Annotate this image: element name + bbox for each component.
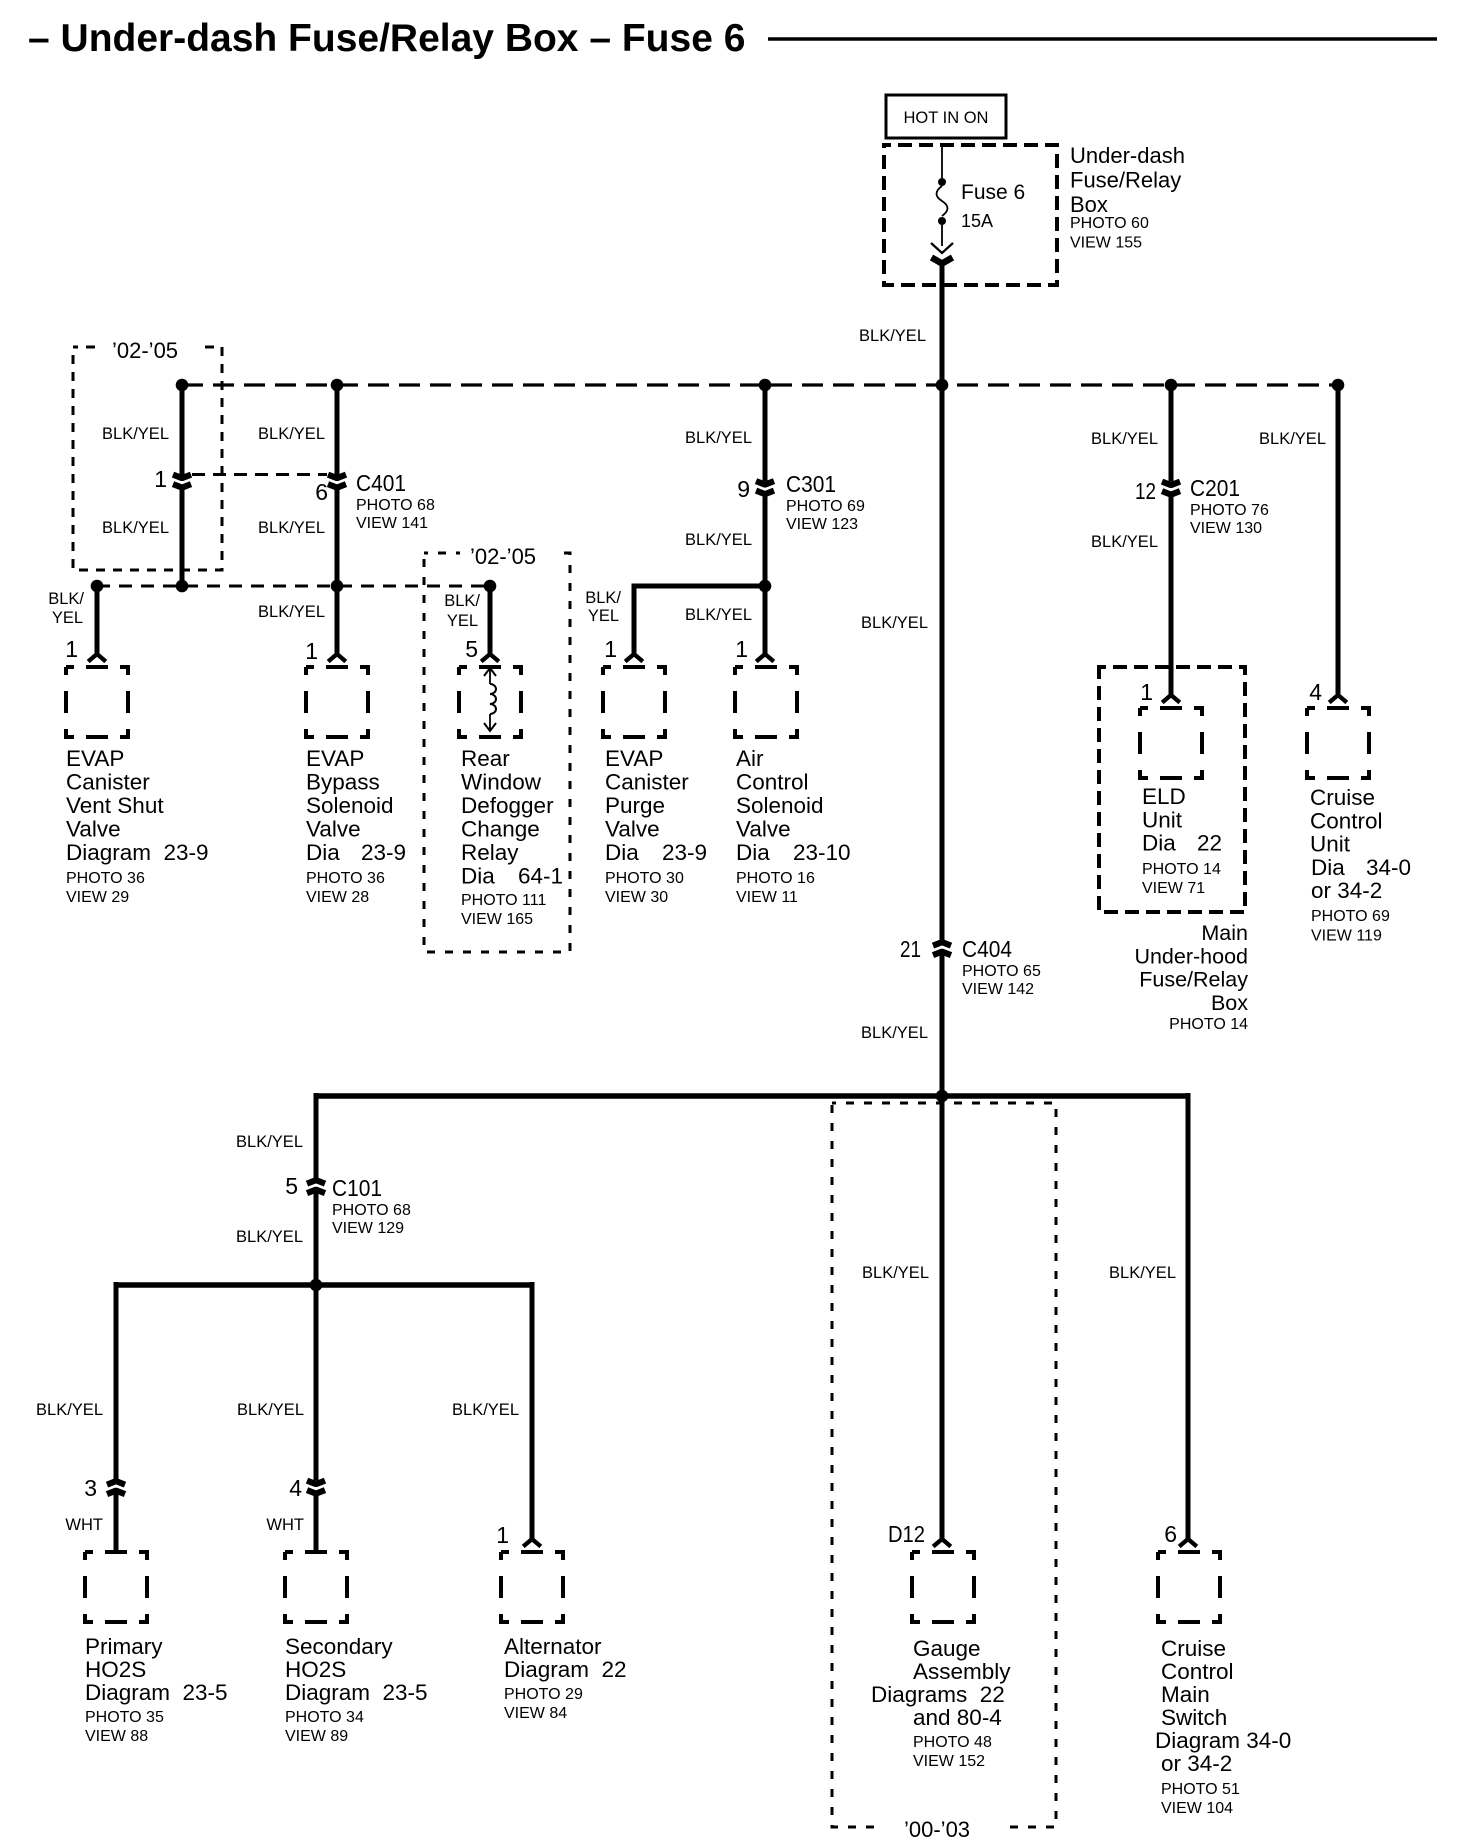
svg-text:Switch: Switch	[1161, 1705, 1227, 1730]
svg-text:1: 1	[305, 638, 318, 664]
connector secondary HO2S (inline)	[307, 1481, 325, 1485]
svg-text:Gauge: Gauge	[913, 1636, 981, 1661]
svg-text:Fuse 6: Fuse 6	[961, 181, 1025, 204]
svg-text:Air: Air	[736, 746, 764, 771]
wire horizontal distribution 2	[116, 1282, 533, 1288]
terminal into cruise control unit	[1329, 695, 1347, 703]
wire to primary HO2S	[114, 1282, 119, 1480]
wire elbow to purge valve	[634, 584, 765, 589]
svg-text:VIEW 165: VIEW 165	[461, 911, 533, 928]
svg-text:PHOTO 36: PHOTO 36	[66, 870, 145, 887]
svg-text:VIEW 89: VIEW 89	[285, 1728, 348, 1745]
svg-text:9: 9	[737, 476, 750, 502]
svg-text:Alternator: Alternator	[504, 1634, 602, 1659]
svg-text:VIEW 11: VIEW 11	[736, 889, 798, 906]
terminal into defogger relay	[481, 654, 499, 662]
svg-text:BLK/: BLK/	[48, 590, 84, 608]
svg-text:1: 1	[154, 466, 167, 492]
svg-text:Unit: Unit	[1310, 832, 1351, 857]
wire horizontal distribution	[315, 1093, 1189, 1099]
wire C404 to main junction	[940, 953, 945, 1096]
svg-text:BLK/YEL: BLK/YEL	[1109, 1264, 1176, 1282]
svg-text:23-10: 23-10	[793, 840, 851, 865]
component box EVAP Canister Purge Valve	[603, 667, 665, 737]
svg-text:23-9: 23-9	[361, 840, 406, 865]
fuse output thin arrow	[931, 243, 953, 253]
wire to secondary HO2S	[314, 1285, 319, 1481]
connector C201 (inline)	[1162, 482, 1180, 486]
svg-text:D12: D12	[888, 1521, 925, 1547]
svg-text:Vent Shut: Vent Shut	[66, 793, 164, 818]
svg-text:Diagram 23-9: Diagram 23-9	[66, 840, 209, 865]
svg-text:Valve: Valve	[736, 817, 791, 842]
fuse node dot lower	[938, 217, 946, 225]
svg-text:BLK/YEL: BLK/YEL	[861, 1024, 928, 1042]
svg-text:BLK/YEL: BLK/YEL	[237, 1401, 304, 1419]
svg-text:PHOTO 30: PHOTO 30	[605, 870, 684, 887]
svg-text:BLK/YEL: BLK/YEL	[36, 1401, 103, 1419]
wire WHT to primary HO2S	[114, 1492, 119, 1552]
svg-text:Dia: Dia	[1311, 855, 1345, 880]
svg-text:VIEW 104: VIEW 104	[1161, 1800, 1233, 1817]
power source box HOT IN ON	[886, 95, 1006, 138]
svg-text:Dia: Dia	[461, 864, 495, 889]
svg-text:PHOTO 35: PHOTO 35	[85, 1709, 164, 1726]
svg-text:BLK/YEL: BLK/YEL	[258, 603, 325, 621]
fuse lead lower	[941, 225, 943, 246]
wire bus2 to EVAP vent shut valve	[95, 586, 100, 656]
svg-text:PHOTO 51: PHOTO 51	[1161, 1781, 1240, 1798]
svg-text:YEL: YEL	[52, 609, 83, 627]
junction dot B2	[331, 580, 344, 593]
dashed group box '02-'05 defogger	[424, 553, 570, 952]
svg-text:PHOTO 76: PHOTO 76	[1190, 502, 1269, 519]
under-dash fuse/relay box (dashed)	[884, 145, 1057, 285]
junction dot defogger	[484, 580, 497, 593]
svg-text:Unit: Unit	[1142, 807, 1183, 832]
connector link dashed line C401	[192, 473, 327, 476]
dashed group box '02-'05 left	[73, 347, 222, 570]
svg-text:C201: C201	[1190, 475, 1240, 501]
svg-text:3: 3	[84, 1475, 97, 1501]
svg-text:VIEW 84: VIEW 84	[504, 1705, 567, 1722]
svg-text:64-1: 64-1	[518, 864, 563, 889]
svg-text:BLK/YEL: BLK/YEL	[862, 1264, 929, 1282]
junction dot A2	[176, 580, 189, 593]
component box Cruise Control Unit	[1307, 708, 1369, 778]
svg-text:Dia: Dia	[306, 840, 340, 865]
svg-text:5: 5	[285, 1173, 298, 1199]
fuse node dot upper	[938, 178, 946, 186]
svg-text:Solenoid: Solenoid	[306, 793, 394, 818]
connector C301 (inline)	[756, 481, 774, 485]
svg-text:VIEW 141: VIEW 141	[356, 515, 428, 532]
component box Cruise Control Main Switch	[1158, 1552, 1220, 1622]
connector C401 pin1 (inline)	[173, 475, 191, 479]
wire to air control valve	[763, 586, 768, 656]
svg-text:C401: C401	[356, 470, 406, 496]
component box ELD Unit	[1140, 708, 1202, 778]
svg-text:Solenoid: Solenoid	[736, 793, 824, 818]
junction dot purge branch	[759, 580, 772, 593]
wire to alternator	[530, 1282, 535, 1541]
svg-text:Valve: Valve	[66, 817, 121, 842]
component box Secondary HO2S	[285, 1552, 347, 1622]
junction dot main	[936, 379, 949, 392]
svg-text:Secondary: Secondary	[285, 1634, 393, 1659]
svg-text:PHOTO 68: PHOTO 68	[332, 1202, 411, 1219]
svg-text:Bypass: Bypass	[306, 770, 380, 795]
svg-text:Control: Control	[736, 770, 809, 795]
svg-text:Diagram 34-0: Diagram 34-0	[1155, 1728, 1291, 1753]
wire C301 to junction	[763, 494, 768, 586]
svg-text:Primary: Primary	[85, 1634, 163, 1659]
component box Primary HO2S	[85, 1552, 147, 1622]
svg-text:PHOTO 68: PHOTO 68	[356, 497, 435, 514]
terminal into air control valve	[756, 654, 774, 662]
svg-text:PHOTO 69: PHOTO 69	[1311, 908, 1390, 925]
svg-text:’02-’05: ’02-’05	[470, 544, 536, 569]
svg-text:and 80-4: and 80-4	[913, 1705, 1002, 1730]
wire BLK/YEL bus to C201	[1169, 385, 1174, 482]
svg-text:BLK/YEL: BLK/YEL	[685, 429, 752, 447]
wire BLK/YEL bus to cruise control unit	[1336, 385, 1341, 697]
svg-text:1: 1	[1140, 679, 1153, 705]
terminal into EVAP purge valve	[625, 654, 643, 662]
svg-text:Valve: Valve	[306, 817, 361, 842]
component box Air Control Solenoid Valve	[735, 667, 797, 737]
svg-text:VIEW 88: VIEW 88	[85, 1728, 148, 1745]
svg-text:or 34-2: or 34-2	[1311, 878, 1382, 903]
svg-text:Under-dash: Under-dash	[1070, 143, 1185, 168]
svg-text:Cruise: Cruise	[1310, 785, 1375, 810]
svg-text:HO2S: HO2S	[85, 1657, 146, 1682]
svg-text:HOT IN ON: HOT IN ON	[904, 109, 989, 127]
svg-text:Dia: Dia	[1142, 831, 1176, 856]
junction dot vent-shut	[91, 580, 104, 593]
junction dot B	[331, 379, 344, 392]
svg-text:Under-hood: Under-hood	[1134, 944, 1248, 968]
svg-text:1: 1	[65, 636, 78, 662]
svg-text:Canister: Canister	[66, 770, 150, 795]
svg-text:BLK/YEL: BLK/YEL	[452, 1401, 519, 1419]
svg-text:– Under-dash Fuse/Relay Box –: – Under-dash Fuse/Relay Box – Fuse 6	[28, 17, 745, 60]
svg-text:BLK/YEL: BLK/YEL	[1091, 533, 1158, 551]
svg-text:VIEW 30: VIEW 30	[605, 889, 668, 906]
wire to gauge assembly	[940, 1093, 945, 1541]
component box Rear Window Defogger Change Relay	[459, 667, 521, 737]
junction dot A	[176, 379, 189, 392]
terminal into gauge assembly	[933, 1539, 951, 1547]
svg-text:Relay: Relay	[461, 840, 519, 865]
svg-text:PHOTO 29: PHOTO 29	[504, 1686, 583, 1703]
svg-text:VIEW 155: VIEW 155	[1070, 235, 1142, 252]
svg-text:VIEW 152: VIEW 152	[913, 1753, 985, 1770]
svg-text:PHOTO 16: PHOTO 16	[736, 870, 815, 887]
svg-text:BLK/YEL: BLK/YEL	[102, 425, 169, 443]
svg-text:Dia: Dia	[736, 840, 770, 865]
svg-text:21: 21	[900, 936, 921, 962]
wire BLK/YEL bus to C404	[940, 385, 945, 943]
terminal into EVAP vent shut valve	[88, 654, 106, 662]
svg-text:Dia: Dia	[605, 840, 639, 865]
svg-text:BLK/YEL: BLK/YEL	[236, 1228, 303, 1246]
main under-hood fuse/relay box (dashed)	[1099, 667, 1245, 912]
svg-text:BLK/YEL: BLK/YEL	[1091, 430, 1158, 448]
wire BLK/YEL bus to C401 pin6	[335, 385, 340, 475]
svg-text:or 34-2: or 34-2	[1161, 1751, 1232, 1776]
svg-text:VIEW 123: VIEW 123	[786, 516, 858, 533]
component box EVAP Bypass Solenoid Valve	[306, 667, 368, 737]
junction dot C201 branch	[1165, 379, 1178, 392]
svg-text:15A: 15A	[961, 211, 993, 231]
bus wire 2 (dashed) y=586	[97, 585, 490, 588]
wire BLK/YEL bus2 to EVAP bypass valve	[335, 586, 340, 656]
wire C401 pin1 to bus2	[180, 488, 185, 587]
svg-text:Main: Main	[1201, 921, 1248, 945]
svg-text:EVAP: EVAP	[306, 746, 364, 771]
terminal into alternator	[523, 1539, 541, 1547]
svg-text:Diagram 22: Diagram 22	[504, 1657, 627, 1682]
svg-text:PHOTO 69: PHOTO 69	[786, 498, 865, 515]
component box Alternator	[501, 1552, 563, 1622]
svg-text:PHOTO 36: PHOTO 36	[306, 870, 385, 887]
svg-text:4: 4	[289, 1475, 302, 1501]
wire C401 pin6 to bus2	[335, 488, 340, 587]
fuse F6 symbol lead	[941, 147, 943, 178]
svg-text:VIEW 29: VIEW 29	[66, 889, 129, 906]
svg-text:VIEW 129: VIEW 129	[332, 1220, 404, 1237]
svg-text:Fuse/Relay: Fuse/Relay	[1070, 168, 1181, 193]
svg-text:BLK/YEL: BLK/YEL	[236, 1133, 303, 1151]
svg-text:Diagrams 22: Diagrams 22	[871, 1682, 1005, 1707]
svg-text:Box: Box	[1211, 991, 1248, 1015]
svg-text:’00-’03: ’00-’03	[904, 1817, 970, 1842]
svg-text:C101: C101	[332, 1175, 382, 1201]
svg-text:BLK/YEL: BLK/YEL	[1259, 430, 1326, 448]
svg-text:Control: Control	[1161, 1659, 1234, 1684]
svg-text:1: 1	[496, 1522, 509, 1548]
svg-text:Diagram 23-5: Diagram 23-5	[285, 1680, 428, 1705]
svg-text:1: 1	[604, 636, 617, 662]
svg-text:34-0: 34-0	[1366, 855, 1411, 880]
connector C401 pin6 (inline)	[328, 475, 346, 479]
svg-text:BLK/YEL: BLK/YEL	[258, 425, 325, 443]
main junction dot	[936, 1090, 949, 1103]
wire WHT to secondary HO2S	[314, 1494, 319, 1553]
svg-text:6: 6	[315, 479, 328, 505]
wire junction to C101	[314, 1093, 319, 1182]
svg-text:Change: Change	[461, 817, 540, 842]
svg-text:ELD: ELD	[1142, 784, 1186, 809]
junction dot C301 branch	[759, 379, 772, 392]
svg-text:Assembly: Assembly	[913, 1659, 1011, 1684]
wire C101 to junction 2	[314, 1192, 319, 1285]
svg-text:Control: Control	[1310, 808, 1383, 833]
svg-text:PHOTO 14: PHOTO 14	[1142, 861, 1221, 878]
svg-text:1: 1	[735, 636, 748, 662]
bus wire (dashed) y=385	[182, 383, 1338, 386]
svg-text:Defogger: Defogger	[461, 793, 554, 818]
svg-text:PHOTO 65: PHOTO 65	[962, 963, 1041, 980]
svg-text:Main: Main	[1161, 1682, 1210, 1707]
svg-text:VIEW 130: VIEW 130	[1190, 520, 1262, 537]
terminal into ELD unit	[1162, 695, 1180, 703]
svg-text:4: 4	[1309, 679, 1322, 705]
component box Gauge Assembly	[912, 1552, 974, 1622]
svg-text:BLK/YEL: BLK/YEL	[859, 327, 926, 345]
svg-text:Box: Box	[1070, 192, 1108, 217]
svg-text:VIEW 119: VIEW 119	[1311, 928, 1382, 945]
svg-text:HO2S: HO2S	[285, 1657, 346, 1682]
component box EVAP Canister Vent Shut Valve	[66, 667, 128, 737]
svg-text:6: 6	[1164, 1521, 1177, 1547]
svg-text:EVAP: EVAP	[605, 746, 663, 771]
svg-text:PHOTO 60: PHOTO 60	[1070, 215, 1149, 232]
svg-text:VIEW 71: VIEW 71	[1142, 880, 1205, 897]
relay coil symbol	[489, 669, 491, 730]
junction dot cruise branch	[1332, 379, 1345, 392]
svg-text:BLK/YEL: BLK/YEL	[685, 531, 752, 549]
svg-text:BLK/: BLK/	[444, 592, 480, 610]
svg-text:C404: C404	[962, 936, 1012, 962]
title rule line	[768, 37, 1437, 41]
svg-text:BLK/YEL: BLK/YEL	[685, 606, 752, 624]
wire BLK/YEL fuse to bus	[940, 261, 945, 385]
fuse output female terminal	[932, 258, 953, 264]
fuse element squiggle	[937, 186, 948, 216]
svg-text:Purge: Purge	[605, 793, 665, 818]
svg-text:PHOTO 48: PHOTO 48	[913, 1734, 992, 1751]
svg-text:YEL: YEL	[588, 607, 619, 625]
wire to cruise control main switch	[1186, 1093, 1191, 1541]
svg-text:C301: C301	[786, 471, 836, 497]
svg-text:BLK/YEL: BLK/YEL	[102, 519, 169, 537]
svg-text:WHT: WHT	[65, 1516, 103, 1534]
wire BLK/YEL bus to C401 pin1	[180, 385, 185, 475]
wire bus2 to defogger relay	[488, 586, 493, 656]
svg-text:Fuse/Relay: Fuse/Relay	[1139, 968, 1248, 992]
connector C101 (inline)	[307, 1180, 325, 1184]
svg-text:WHT: WHT	[266, 1516, 304, 1534]
svg-text:PHOTO 14: PHOTO 14	[1169, 1016, 1248, 1033]
svg-text:PHOTO 111: PHOTO 111	[461, 892, 546, 909]
svg-text:Window: Window	[461, 770, 542, 795]
svg-text:VIEW 28: VIEW 28	[306, 889, 369, 906]
svg-text:5: 5	[465, 636, 478, 662]
svg-text:22: 22	[1197, 831, 1222, 856]
dashed group box '00-'03	[832, 1103, 1056, 1827]
svg-text:BLK/YEL: BLK/YEL	[861, 614, 928, 632]
connector C404 (inline)	[933, 942, 951, 946]
svg-text:Canister: Canister	[605, 770, 689, 795]
svg-text:Rear: Rear	[461, 746, 510, 771]
junction dot 2	[310, 1279, 323, 1292]
svg-text:Diagram 23-5: Diagram 23-5	[85, 1680, 228, 1705]
svg-text:PHOTO 34: PHOTO 34	[285, 1709, 364, 1726]
svg-text:BLK/YEL: BLK/YEL	[258, 519, 325, 537]
svg-text:VIEW 142: VIEW 142	[962, 981, 1034, 998]
svg-text:EVAP: EVAP	[66, 746, 124, 771]
svg-text:Valve: Valve	[605, 817, 660, 842]
svg-text:YEL: YEL	[447, 612, 478, 630]
wire BLK/YEL bus to C301	[763, 385, 768, 481]
svg-text:Cruise: Cruise	[1161, 1636, 1226, 1661]
terminal into EVAP bypass valve	[328, 654, 346, 662]
svg-text:23-9: 23-9	[662, 840, 707, 865]
svg-text:BLK/: BLK/	[585, 589, 621, 607]
connector primary HO2S (inline)	[107, 1481, 125, 1485]
svg-text:12: 12	[1135, 478, 1156, 504]
wire C201 to ELD unit	[1169, 495, 1174, 698]
terminal into cruise main switch	[1179, 1539, 1197, 1547]
svg-text:’02-’05: ’02-’05	[112, 338, 178, 363]
